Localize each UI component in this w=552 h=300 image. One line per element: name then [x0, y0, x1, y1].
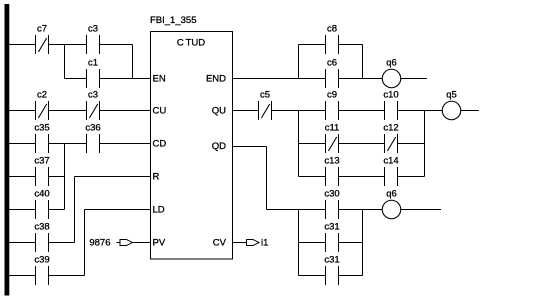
svg-text:9876: 9876: [89, 238, 110, 249]
svg-text:c30: c30: [324, 189, 339, 200]
svg-text:c10: c10: [383, 90, 398, 101]
svg-text:q5: q5: [446, 90, 457, 101]
svg-text:END: END: [206, 73, 226, 84]
svg-text:c31: c31: [324, 222, 339, 233]
svg-text:c1: c1: [88, 58, 98, 69]
svg-text:c40: c40: [34, 189, 49, 200]
svg-text:C TUD: C TUD: [177, 37, 205, 48]
svg-text:PV: PV: [153, 237, 166, 248]
svg-text:c38: c38: [34, 222, 49, 233]
svg-text:CD: CD: [153, 138, 167, 149]
svg-text:c7: c7: [37, 24, 47, 35]
svg-text:c39: c39: [34, 255, 49, 266]
svg-text:q6: q6: [386, 189, 397, 200]
svg-text:LD: LD: [153, 204, 165, 215]
svg-text:c36: c36: [85, 123, 100, 134]
svg-text:c2: c2: [37, 90, 47, 101]
svg-text:FBI_1_355: FBI_1_355: [150, 15, 196, 26]
svg-text:R: R: [153, 171, 160, 182]
svg-text:c5: c5: [260, 90, 270, 101]
svg-text:CU: CU: [153, 105, 167, 116]
svg-text:c35: c35: [34, 123, 49, 134]
svg-text:c12: c12: [383, 123, 398, 134]
svg-text:q6: q6: [386, 58, 397, 69]
svg-text:i1: i1: [261, 238, 268, 249]
svg-text:c13: c13: [324, 156, 339, 167]
svg-text:c31: c31: [324, 255, 339, 266]
svg-text:c3: c3: [88, 24, 98, 35]
svg-text:EN: EN: [153, 73, 166, 84]
svg-text:c3: c3: [88, 90, 98, 101]
svg-text:CV: CV: [213, 237, 227, 248]
svg-text:QD: QD: [212, 141, 226, 152]
svg-text:c11: c11: [325, 123, 340, 134]
svg-text:c14: c14: [383, 156, 398, 167]
svg-text:c9: c9: [327, 90, 337, 101]
svg-text:c6: c6: [327, 58, 337, 69]
svg-text:c37: c37: [34, 156, 49, 167]
svg-text:c8: c8: [327, 24, 337, 35]
svg-text:QU: QU: [212, 105, 226, 116]
